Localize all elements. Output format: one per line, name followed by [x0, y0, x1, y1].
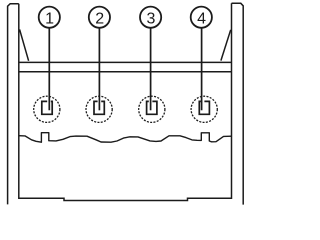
svg-text:2: 2 — [95, 11, 104, 28]
svg-text:4: 4 — [197, 11, 206, 28]
svg-text:1: 1 — [45, 11, 54, 28]
svg-text:3: 3 — [146, 11, 155, 28]
